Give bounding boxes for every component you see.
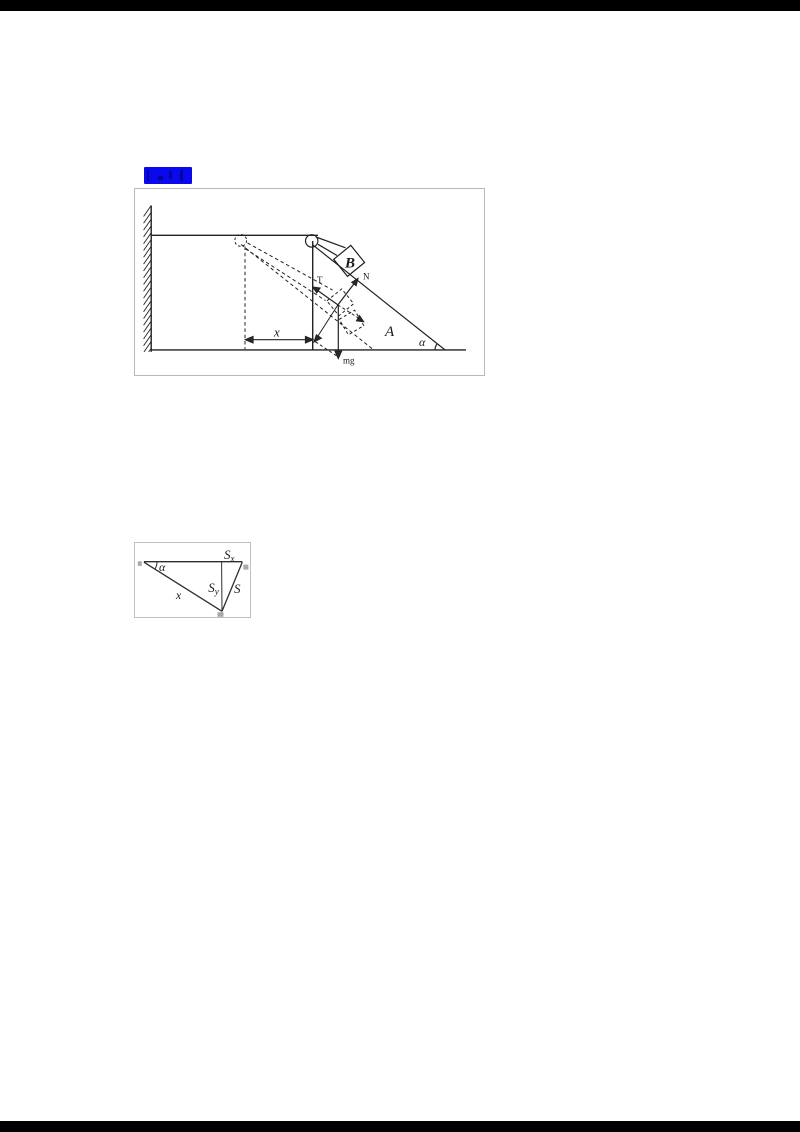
svg-text:Sx: Sx [224, 547, 235, 564]
svg-text:x: x [273, 325, 280, 340]
svg-text:S: S [234, 581, 241, 596]
svg-text:A: A [384, 324, 395, 340]
svg-text:α: α [419, 335, 426, 349]
svg-text:Sy: Sy [208, 580, 219, 597]
svg-text:α: α [159, 560, 166, 574]
svg-text:x: x [175, 588, 182, 602]
svg-text:T: T [317, 275, 323, 285]
svg-text:N: N [363, 271, 370, 281]
svg-text:B: B [344, 255, 355, 271]
svg-text:mg: mg [343, 356, 355, 366]
